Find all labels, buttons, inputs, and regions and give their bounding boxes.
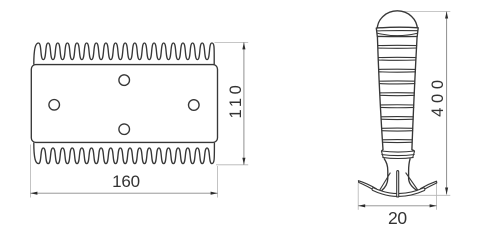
- dim 110 arrow up: [242, 42, 245, 49]
- top teeth row: [34, 43, 214, 64]
- dome cap: [377, 11, 417, 30]
- blade center pad: [372, 188, 425, 197]
- dim 400 arrow down: [445, 188, 448, 195]
- ring 8: [382, 128, 414, 131]
- dim 20 extension line left: [357, 183, 359, 210]
- hole bottom center: [119, 124, 130, 135]
- ring 7: [381, 117, 414, 120]
- dim 20 arrow left: [358, 204, 365, 207]
- dim 400 dimension line: [446, 12, 448, 195]
- blade left wing: [358, 181, 376, 192]
- dim 20 extension line right: [436, 184, 438, 210]
- dim 160 arrow left: [30, 192, 37, 195]
- dim 20 arrow right: [430, 204, 437, 207]
- dim 110 arrow down: [242, 158, 245, 165]
- right strut: [406, 173, 418, 191]
- hole right: [189, 100, 200, 111]
- svg-text:160: 160: [112, 172, 140, 191]
- dim 20 dimension line: [358, 205, 436, 207]
- handle neck and legs: [382, 158, 417, 190]
- dim 400 arrow up: [445, 12, 448, 19]
- central fin: [397, 171, 399, 197]
- dim 160 dimension line: [30, 192, 217, 194]
- hole left: [49, 100, 60, 111]
- dim 160 extension line left: [29, 145, 31, 198]
- svg-text:110: 110: [227, 82, 245, 119]
- handle body outline: [377, 37, 417, 152]
- blade right wing: [421, 181, 437, 191]
- bottom collar: [381, 151, 414, 159]
- ring 4: [379, 81, 415, 84]
- dim 400 extension line top: [403, 11, 450, 13]
- bottom teeth row: [34, 143, 215, 164]
- dim 110 extension line top: [215, 41, 249, 43]
- dim 160 extension line right: [217, 166, 219, 198]
- top collar: [376, 27, 418, 36]
- ring 6: [380, 105, 414, 108]
- dim 400 extension line bottom: [400, 194, 450, 196]
- ring 5: [380, 93, 415, 96]
- ring 3: [379, 69, 416, 72]
- dim 110 dimension line: [243, 42, 245, 164]
- svg-text:400: 400: [429, 75, 447, 117]
- ring 1: [377, 45, 417, 48]
- left strut: [380, 173, 391, 191]
- ring 9: [382, 140, 413, 143]
- comb plate body: [31, 65, 217, 143]
- dim 160 arrow right: [211, 192, 218, 195]
- svg-text:20: 20: [388, 208, 407, 228]
- ring 2: [378, 57, 417, 60]
- dim 110 extension line bottom: [216, 164, 248, 166]
- hole top center: [119, 75, 130, 86]
- bottom collar sides: [381, 151, 414, 158]
